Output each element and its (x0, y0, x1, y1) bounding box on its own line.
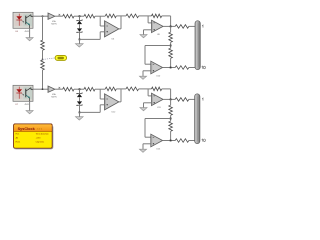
svg-text:Clip limits: Clip limits (36, 140, 45, 143)
ground at inverter (139, 76, 146, 79)
wire output rail (163, 25, 175, 27)
wire between zeners (79, 24, 81, 28)
resistor R5 feedback (152, 14, 162, 18)
probe connection dashed wire (43, 58, 56, 60)
U9A label (51, 93, 57, 98)
buffer U9A (48, 86, 55, 92)
wire rail to inverting input (100, 89, 104, 99)
wire to divider node (170, 42, 172, 48)
SysClock title note (37, 128, 43, 130)
wire rail segment (121, 88, 126, 90)
wire feedback to output node (162, 89, 171, 100)
wire divider bottom to output rail (170, 58, 172, 67)
wire output to divider (170, 26, 172, 32)
wire divider node to inverter input (145, 46, 171, 65)
svg-text:U7: U7 (15, 104, 19, 106)
resistor R9 (175, 66, 189, 70)
wire buffer to resistor (55, 88, 63, 90)
U5A label (51, 20, 57, 25)
wire feedback to output (116, 89, 121, 102)
SysClock title (18, 127, 36, 131)
wire zener to ground node (79, 106, 81, 113)
ground below zeners (75, 112, 83, 120)
wire to connector pin 10 (189, 67, 198, 69)
resistor R1 (63, 14, 74, 18)
wire to clamp node (74, 88, 84, 90)
ground below zeners (75, 39, 83, 47)
junction output node (170, 99, 172, 101)
wire to connector pin 1 (189, 25, 198, 27)
junction clamp node (79, 88, 81, 90)
J1 pin 1 label (201, 25, 204, 28)
op-amp U8 (152, 20, 164, 32)
wire node to zener D1 (79, 89, 81, 93)
node tap to lower channel rail (42, 88, 44, 90)
wire non-inverting to ground (143, 144, 151, 149)
wire to second stage input (139, 15, 152, 17)
wire between zeners (79, 97, 81, 101)
svg-text:U15: U15 (156, 148, 161, 150)
node tap to lower channel rail (42, 15, 44, 17)
resistor R18 (175, 139, 189, 143)
wire divider bottom to output rail (170, 131, 172, 140)
svg-text:U8: U8 (157, 34, 161, 36)
wire feedback to output (116, 16, 121, 29)
U11 label (157, 107, 162, 109)
junction ground node (79, 39, 81, 41)
wire zener to ground node (79, 33, 81, 40)
wire rail segment (121, 15, 126, 17)
op-amp U11 (152, 93, 164, 105)
svg-text:Time distortion: Time distortion (36, 133, 49, 136)
resistor R15 (175, 98, 189, 102)
svg-text:4N35: 4N35 (25, 104, 30, 106)
U7 label (15, 104, 29, 106)
U10 label (156, 75, 161, 77)
wire divider node to inverter input (145, 119, 171, 138)
connector J2 (195, 94, 200, 144)
junction clamp node (79, 15, 81, 17)
svg-text:U4: U4 (15, 31, 19, 33)
resistor R13 (126, 87, 139, 91)
wire to clamp node (74, 15, 84, 17)
SysClock row 3 (16, 140, 45, 143)
SysClock info box (14, 124, 53, 149)
wire non-inverting to ground (143, 71, 151, 76)
wire rail down from tap node (42, 16, 44, 40)
svg-text:U12: U12 (112, 111, 117, 113)
svg-text:SysClock: SysClock (18, 127, 36, 131)
wire non-inverting input to ground node (80, 105, 105, 113)
SysClock row 2 (16, 137, 42, 140)
svg-text:U6: U6 (112, 38, 116, 40)
resistor R10 (63, 87, 74, 91)
U8 label (157, 34, 161, 36)
wire buffer to resistor (55, 15, 63, 17)
wire op-amp output up to rail (119, 101, 121, 103)
op-amp U10 (151, 61, 163, 74)
U12 label (112, 111, 117, 113)
junction output node (170, 26, 172, 28)
resistor R4 (126, 14, 139, 18)
wire output to divider (170, 99, 172, 105)
wire non-inverting to ground (144, 103, 152, 108)
junction ground node (79, 112, 81, 114)
U15 label (156, 148, 161, 150)
svg-text:7407N: 7407N (51, 23, 57, 25)
resistor R6 (175, 25, 189, 29)
wire to divider node (170, 115, 172, 121)
resistor R12 feedback (105, 87, 116, 91)
op-amp U6 (105, 21, 119, 37)
junction divider node (170, 118, 172, 120)
svg-text:U11: U11 (157, 107, 162, 109)
junction probe tap (42, 59, 44, 61)
op-amp U15 (151, 134, 163, 147)
zener diode D2 (77, 28, 82, 33)
resistor R2 (84, 14, 95, 18)
resistor R20 vertical (41, 40, 45, 50)
net marker x (59, 87, 61, 89)
net marker x (59, 14, 61, 16)
J1 pin 10 label (202, 66, 206, 69)
wire to op-amp input node (95, 15, 105, 17)
wire to second stage input (139, 88, 152, 90)
wire to connector pin 1 (189, 98, 198, 100)
wire node to zener D1 (79, 16, 81, 20)
wire down to inverting input (148, 89, 151, 96)
op-amp U12 (105, 94, 119, 110)
resistor R14 feedback (152, 87, 162, 91)
J2 pin 10 label (202, 139, 206, 142)
zener diode D1 (77, 20, 82, 25)
wire down to channel 2 rail (42, 70, 44, 89)
junction inverter output (170, 140, 172, 142)
zener diode D3 (77, 93, 82, 98)
resistor R21 vertical (41, 60, 45, 70)
wire optocoupler output to buffer (33, 88, 48, 90)
svg-text:2 of 2: 2 of 2 (37, 128, 43, 130)
resistor R8 feedback (169, 48, 173, 58)
wire down to inverting input (148, 16, 151, 23)
resistor R11 (84, 87, 95, 91)
junction divider node (170, 45, 172, 47)
U6 label (112, 38, 116, 40)
wire op-amp output up to rail (119, 28, 121, 30)
ground at inverter (139, 149, 146, 152)
U4 label (15, 31, 29, 33)
wire feedback to output node (162, 16, 171, 27)
svg-text:7407N: 7407N (51, 96, 57, 98)
resistor R7 (169, 32, 173, 42)
wire rail to inverting input (100, 16, 104, 26)
wire to op-amp input node (95, 88, 105, 90)
svg-text:U10: U10 (156, 75, 161, 77)
wire non-inverting input to ground node (80, 32, 105, 40)
wire to connector pin 10 (189, 140, 198, 142)
ground at optocoupler emitter (26, 28, 33, 41)
buffer U5A (48, 13, 55, 19)
ground at second stage (140, 108, 147, 111)
resistor R17 feedback (169, 121, 173, 131)
junction inverter output (170, 67, 172, 69)
wire output rail (163, 98, 175, 100)
ground at second stage (140, 35, 147, 38)
ground at optocoupler emitter (26, 101, 33, 114)
wire to probe tap (42, 50, 44, 60)
SysClock row 1 (16, 133, 49, 136)
wire inverter output rail (163, 140, 176, 142)
zener diode D4 (77, 101, 82, 106)
connector J1 (195, 21, 200, 70)
wire optocoupler output to buffer (33, 15, 48, 17)
wire non-inverting to ground (144, 30, 152, 35)
measurement probe (55, 55, 66, 60)
resistor R16 (169, 105, 173, 115)
J2 pin 1 label (201, 98, 204, 101)
optocoupler U4 (13, 12, 33, 28)
wire inverter output rail (163, 67, 176, 69)
optocoupler U7 (13, 85, 33, 101)
svg-text:4N35: 4N35 (25, 31, 30, 33)
resistor R3 feedback (105, 14, 116, 18)
